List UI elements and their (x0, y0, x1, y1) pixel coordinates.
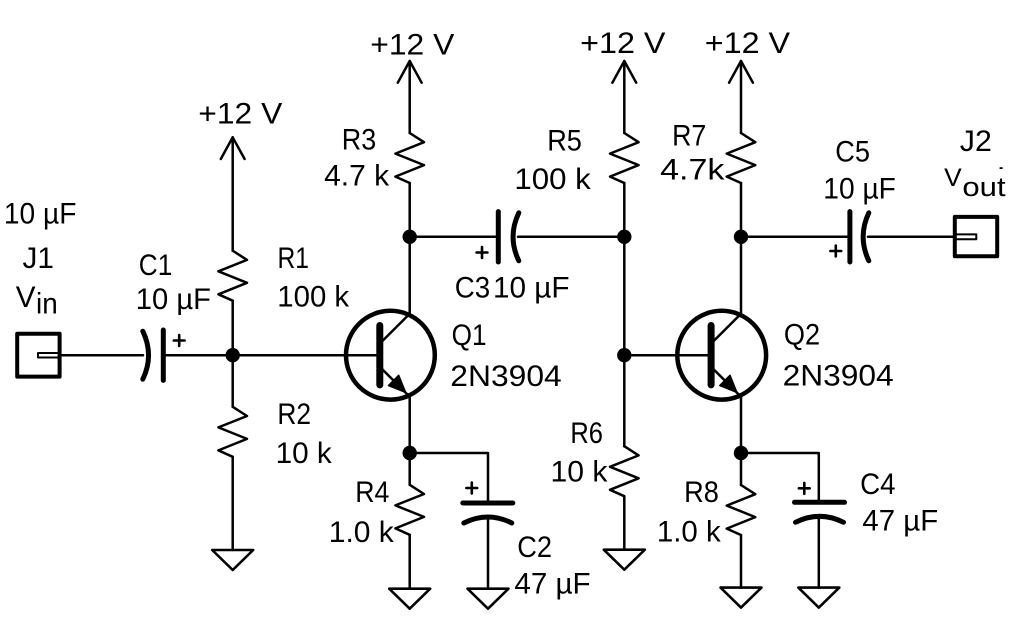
node E junction (734, 230, 748, 244)
wire Q1 emitter to node F (408, 397, 411, 485)
svg-text:10 µF: 10 µF (136, 283, 211, 316)
resistor R7 (727, 133, 756, 183)
svg-text:10 µF: 10 µF (4, 197, 77, 230)
wire node G to C4 (741, 453, 819, 500)
capacitor C4 (795, 483, 845, 522)
wire R6 to ground (623, 496, 626, 549)
node A junction (226, 348, 240, 362)
svg-text:R5: R5 (547, 124, 582, 157)
capacitor C2 (463, 483, 513, 523)
svg-text:C5: C5 (835, 136, 870, 169)
ground under C4 (798, 588, 839, 608)
capacitor C5 (830, 212, 868, 262)
wire node A to Q1 base (233, 354, 377, 357)
ground under C2 (468, 589, 509, 609)
svg-text:C4: C4 (860, 468, 896, 501)
svg-text:10 k: 10 k (276, 437, 333, 470)
svg-text:1.0 k: 1.0 k (657, 515, 722, 548)
wire C5 to J2 (868, 236, 955, 239)
svg-text:C2: C2 (517, 531, 552, 564)
svg-text:R6: R6 (570, 417, 603, 450)
ground under R4 (389, 589, 430, 609)
wire R3 to node B and Q1 collector (408, 183, 411, 314)
svg-text:+12 V: +12 V (705, 27, 790, 60)
wire node F to C2 (410, 453, 488, 501)
wire Q2 emitter to node G (740, 397, 743, 485)
svg-text:C3: C3 (455, 271, 491, 304)
wire node D to Q2 base (624, 354, 707, 357)
wire J1 to C1 (60, 354, 143, 357)
node G junction (734, 446, 748, 460)
svg-text:Q1: Q1 (452, 319, 487, 352)
svg-text:J2: J2 (960, 125, 992, 158)
resistor R2 (218, 407, 247, 457)
svg-text:47 µF: 47 µF (862, 505, 938, 538)
transistor Q2 (677, 311, 766, 400)
svg-text:4.7k: 4.7k (660, 153, 725, 186)
capacitor C1 (143, 330, 185, 380)
svg-text:2N3904: 2N3904 (450, 360, 561, 393)
wire C4 to ground (818, 516, 821, 587)
wire R5 to node C to node D (623, 183, 626, 446)
svg-text:10 k: 10 k (551, 456, 609, 489)
node C junction (617, 230, 631, 244)
wire R7 to node E and Q2 collector (740, 183, 743, 314)
transistor Q1 (346, 311, 435, 400)
node D junction (617, 348, 631, 362)
svg-text:2N3904: 2N3904 (783, 360, 894, 393)
resistor R6 (610, 446, 639, 496)
capacitor C3 (477, 212, 519, 262)
power +12V arrow over R1 (221, 137, 245, 250)
connector J2 (955, 217, 997, 256)
svg-text:R1: R1 (278, 242, 310, 275)
resistor R8 (727, 485, 756, 535)
wire R2 to ground (231, 457, 234, 550)
power +12V arrow over R3 (398, 61, 422, 133)
svg-text:Q2: Q2 (784, 319, 820, 352)
svg-text:R3: R3 (342, 124, 376, 157)
resistor R5 (610, 133, 639, 183)
svg-text:C1: C1 (139, 249, 173, 282)
wire R4 to ground (408, 535, 411, 589)
ground under R6 (604, 550, 645, 570)
svg-text:47 µF: 47 µF (514, 568, 590, 601)
svg-text:V: V (944, 164, 962, 192)
resistor R4 (395, 485, 424, 535)
wire C3 to node C (518, 236, 624, 239)
wire C1 to node A (163, 354, 232, 357)
svg-text:4.7 k: 4.7 k (324, 160, 390, 193)
stray mark near Vout (1000, 167, 1003, 169)
wire C2 to ground (487, 517, 490, 589)
svg-text:+12 V: +12 V (198, 98, 282, 131)
svg-text:+12 V: +12 V (370, 28, 454, 61)
connector J1 (17, 334, 59, 377)
svg-text:R4: R4 (355, 476, 389, 509)
wire R8 to ground (740, 535, 743, 587)
svg-text:out: out (962, 172, 1006, 202)
svg-text:in: in (36, 288, 58, 321)
svg-text:R7: R7 (672, 120, 706, 153)
wire node B to C3 (410, 236, 497, 239)
svg-text:J1: J1 (23, 242, 54, 275)
svg-text:100 k: 100 k (277, 280, 350, 313)
svg-text:1.0 k: 1.0 k (329, 516, 395, 549)
svg-text:10 µF: 10 µF (493, 271, 570, 304)
node F junction (403, 446, 417, 460)
svg-text:R2: R2 (277, 398, 311, 431)
node B junction (403, 230, 417, 244)
power +12V arrow over R5 (612, 61, 636, 133)
svg-text:100 k: 100 k (514, 163, 591, 196)
svg-text:R8: R8 (684, 476, 719, 509)
ground under R2 (212, 550, 253, 570)
ground under R8 (721, 588, 762, 608)
svg-text:+12 V: +12 V (580, 27, 665, 60)
power +12V arrow over R7 (729, 61, 753, 133)
resistor R1 (218, 251, 247, 301)
svg-text:10 µF: 10 µF (823, 173, 896, 206)
resistor R3 (395, 133, 424, 183)
wire R1 to node A to R2 (231, 301, 234, 407)
svg-text:V: V (16, 281, 36, 314)
wire node E to C5 (741, 236, 849, 239)
